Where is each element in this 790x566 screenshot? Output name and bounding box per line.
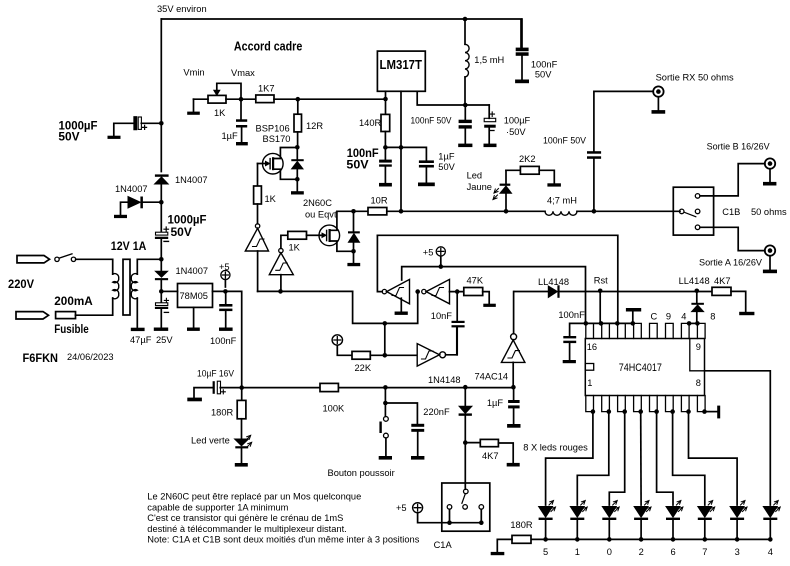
capacitor 220nF <box>385 403 424 456</box>
pins 4017 top <box>586 323 705 338</box>
label 100nF 50V top right <box>531 59 558 79</box>
node +5 rail <box>439 264 444 269</box>
label 100nF <box>210 336 237 346</box>
node pin14 <box>615 321 620 326</box>
capacitor 1000uF 50V input <box>114 117 162 136</box>
svg-text:1µF: 1µF <box>438 151 455 161</box>
transformer core <box>123 259 130 315</box>
wire clock down <box>599 291 601 324</box>
led verte <box>235 435 252 463</box>
node led jaune tap <box>504 209 509 214</box>
svg-text:Vmax: Vmax <box>231 68 255 78</box>
resistor 180R green led <box>237 388 246 439</box>
svg-text:8 X leds rouges: 8 X leds rouges <box>523 443 588 453</box>
diode 1N4007 lower <box>155 271 168 280</box>
svg-text:2N60C: 2N60C <box>303 198 332 208</box>
wire out q2 <box>640 412 642 505</box>
node oscillator out A <box>278 289 283 294</box>
label 74AC14 <box>475 372 509 382</box>
svg-text:1K: 1K <box>214 108 226 118</box>
node inductor bottom <box>463 103 468 108</box>
wire out q7 <box>673 412 705 505</box>
node pin2 cross <box>399 145 404 150</box>
wire switch to transformer <box>76 259 113 274</box>
ground for 4K7 reset <box>739 312 754 315</box>
node 4K7 junction <box>463 440 468 445</box>
label Vmin <box>183 68 204 78</box>
ground for 47K <box>483 304 496 307</box>
svg-text:C1A: C1A <box>434 540 453 550</box>
ground for 100uF <box>484 144 497 148</box>
svg-text:78M05: 78M05 <box>180 291 208 301</box>
transistor BSP106 <box>258 148 296 187</box>
inverter 2 osc <box>422 279 450 303</box>
node pin8 diode <box>695 321 700 326</box>
inverter 1 osc <box>382 279 409 311</box>
svg-text:50V: 50V <box>58 129 79 143</box>
capacitor 100nF 50V adj <box>379 160 392 183</box>
svg-text:LL4148: LL4148 <box>538 277 569 287</box>
label 4K7 reset <box>714 276 731 286</box>
led rouge 2 <box>634 501 651 540</box>
wire out q6 <box>657 412 673 505</box>
resistor 2K2 <box>506 166 554 183</box>
label 1000uF 50V filter <box>168 213 207 240</box>
svg-text:1K: 1K <box>265 194 277 204</box>
capacitor 100nF 50V out <box>459 105 472 144</box>
wire 1K7 to LM317 adj <box>274 98 386 100</box>
label 4,7 mH <box>547 195 577 205</box>
fuse 200mA <box>56 312 76 319</box>
svg-text:47µF: 47µF <box>130 335 152 345</box>
svg-text:Jaune: Jaune <box>467 182 492 192</box>
switch C1A <box>442 483 490 531</box>
wire pin7 pin8 bridge <box>689 322 697 324</box>
label 220nF <box>423 407 450 417</box>
supply +5 osc <box>436 247 445 267</box>
supply +5 22K <box>332 335 352 356</box>
ground for 1uF reset <box>507 424 520 428</box>
label F6FKN <box>23 351 59 365</box>
regulator 78M05 <box>178 284 213 308</box>
label Vmax <box>231 68 255 78</box>
label 2N60C ou Eqvt <box>303 198 337 220</box>
wire 78M05 output <box>213 291 242 387</box>
label 1,5 mH <box>474 55 504 65</box>
svg-text:Vmin: Vmin <box>183 68 204 78</box>
wire 1K to 2N60C gate <box>307 234 320 236</box>
svg-text:1: 1 <box>587 378 592 388</box>
svg-text:·50V: ·50V <box>506 127 526 137</box>
wire 2N60C source ground <box>353 251 355 263</box>
label 100K <box>323 403 346 413</box>
connector Sortie B <box>765 158 775 181</box>
ground for RX connector <box>652 110 666 114</box>
node 22K out <box>383 353 388 358</box>
node BSP106 drain <box>295 145 300 150</box>
wire inv2 to 47K <box>450 291 464 293</box>
resistor 47K <box>464 288 489 304</box>
wire out q0 <box>609 412 624 505</box>
svg-text:16: 16 <box>587 342 597 352</box>
label 140R <box>359 118 382 128</box>
ground for 2N60C <box>347 263 360 266</box>
svg-text:35V environ: 35V environ <box>157 4 207 14</box>
label +5 <box>219 262 230 272</box>
label 8 X leds rouges <box>523 443 588 453</box>
wire BSP106 source to ground <box>296 179 298 191</box>
led rouge 3 <box>730 501 747 540</box>
wire +5 rail osc <box>402 267 586 324</box>
svg-text:12V 1A: 12V 1A <box>111 239 147 253</box>
diode LL4148 clock <box>548 285 559 298</box>
ground for 220nF <box>411 456 424 460</box>
pins 4017 bottom <box>586 396 705 412</box>
node 22K junction on loop <box>383 321 388 326</box>
svg-text:24/06/2023: 24/06/2023 <box>67 352 114 362</box>
connector Sortie A <box>765 245 775 269</box>
capacitor 100nF 50V top right <box>516 19 529 80</box>
label BSP106 BS170 <box>256 124 291 145</box>
label LL4148 clock <box>538 277 569 287</box>
svg-text:5: 5 <box>543 547 548 557</box>
labels led numbers <box>543 547 773 557</box>
svg-text:50V: 50V <box>438 162 455 172</box>
wire vdd row <box>586 322 634 324</box>
diode 1N4007 horizontal <box>121 197 160 215</box>
svg-text:50V: 50V <box>171 225 192 239</box>
label 1uF reset <box>487 398 504 408</box>
capacitor 100uF 50V <box>484 105 496 144</box>
label 12R <box>306 121 323 131</box>
transformer primary coil <box>113 274 119 299</box>
node reset diode junction <box>695 289 700 294</box>
ground for 2K2 <box>547 183 561 186</box>
svg-text:10R: 10R <box>371 196 388 206</box>
svg-text:Fusible: Fusible <box>54 322 89 336</box>
diode flyback 2N60C <box>348 211 360 251</box>
switch secteur <box>55 254 76 262</box>
node 1N4148 top <box>463 385 468 390</box>
capacitor 1uF 50V out <box>419 160 434 182</box>
node transformer junction <box>159 257 164 262</box>
capacitor 100nF 4017 <box>563 323 586 360</box>
ground for horizontal diode <box>114 215 127 218</box>
svg-text:Led: Led <box>467 171 483 181</box>
inverter 3 74AC14 <box>417 327 457 366</box>
svg-text:+5: +5 <box>423 248 434 258</box>
diode 1N4007 top <box>155 174 169 184</box>
svg-text:100nF: 100nF <box>531 59 558 69</box>
nodes bottom pins <box>591 409 707 414</box>
node pin16 <box>584 321 589 326</box>
capacitor 1000uF 50V filter <box>155 227 169 241</box>
wire rc rail <box>242 387 514 389</box>
diode flyback BSP106 <box>291 147 303 179</box>
svg-text:1µF: 1µF <box>222 131 239 141</box>
label 1K7 <box>258 83 275 93</box>
label 1000uF 50V <box>58 118 97 143</box>
svg-text:22K: 22K <box>355 363 372 373</box>
node c1a left <box>447 520 452 525</box>
label 1N4148 <box>428 375 461 385</box>
svg-text:9: 9 <box>666 312 671 322</box>
svg-text:140R: 140R <box>359 118 382 128</box>
node 12R top <box>296 97 301 102</box>
led rouge 1 <box>570 501 587 540</box>
svg-text:1K7: 1K7 <box>258 83 275 93</box>
svg-text:25V: 25V <box>156 335 173 345</box>
svg-text:C: C <box>651 312 658 322</box>
label 200mA <box>54 294 93 308</box>
wire out q1 <box>577 412 609 505</box>
svg-text:1N4148: 1N4148 <box>428 375 461 385</box>
node diode junction <box>159 200 164 205</box>
inductor 4,7mH <box>545 211 577 215</box>
svg-text:1N4007: 1N4007 <box>115 184 148 194</box>
capacitor 100nF 50V rx <box>587 91 653 211</box>
ground for 10uF <box>187 398 202 402</box>
svg-text:220V: 220V <box>8 277 34 291</box>
label 1uF 50V <box>438 151 455 172</box>
wire lm317 mid row <box>385 147 426 160</box>
led jaune <box>493 170 512 211</box>
node inverter4 bottom <box>511 385 516 390</box>
resistor 1K7 <box>256 95 274 103</box>
svg-text:1K: 1K <box>289 243 301 253</box>
wire to C1A <box>464 443 466 490</box>
resistor 180R leds <box>497 535 531 552</box>
node clock junction <box>598 289 603 294</box>
svg-text:12R: 12R <box>306 121 323 131</box>
svg-text:LM317T: LM317T <box>380 57 423 72</box>
label 4K7 c1a <box>482 451 499 461</box>
label 10nF <box>431 311 453 321</box>
svg-text:Sortie A 16/26V: Sortie A 16/26V <box>699 258 763 268</box>
transistor 2N60C <box>319 211 354 251</box>
node 10R out <box>399 209 404 214</box>
resistor 1K gate 2N60C <box>288 231 307 239</box>
svg-text:100nF: 100nF <box>210 336 237 346</box>
svg-text:Led verte: Led verte <box>191 436 230 446</box>
svg-text:2: 2 <box>639 547 644 557</box>
svg-text:0: 0 <box>607 547 612 557</box>
capacitor 1uF vmax <box>236 102 247 143</box>
label notes <box>147 492 419 545</box>
pushbutton <box>379 417 388 457</box>
label Bouton poussoir <box>328 468 395 478</box>
label Led Jaune <box>467 171 492 193</box>
diode 1N4148 <box>459 387 472 442</box>
svg-text:10nF: 10nF <box>431 311 453 321</box>
resistor 4K7 c1a <box>465 439 513 463</box>
label Sortie B <box>707 142 771 152</box>
label C1A <box>434 540 453 550</box>
node BSP106 source <box>295 177 300 182</box>
resistor 12R <box>294 99 302 147</box>
node osc rc <box>239 385 244 390</box>
svg-text:100K: 100K <box>323 403 346 413</box>
resistor 140R <box>381 114 390 159</box>
ground for 78M05 <box>193 307 195 327</box>
node 35V label <box>157 4 207 14</box>
node button top <box>383 385 388 390</box>
label 10uF 16V <box>197 369 235 379</box>
wire secondary top <box>137 259 161 274</box>
label +5 osc <box>423 248 434 258</box>
ground pin8 gnd <box>705 411 718 413</box>
wire 35V top rail <box>161 19 521 47</box>
wire 12V rail <box>401 210 680 212</box>
svg-text:180R: 180R <box>211 408 234 418</box>
wire B out to 1K <box>281 235 288 248</box>
svg-text:+5: +5 <box>219 262 230 272</box>
node pin13 <box>631 321 636 326</box>
svg-text:capable de supporter 1A minimu: capable de supporter 1A minimum <box>147 502 288 512</box>
svg-text:74AC14: 74AC14 <box>475 372 509 382</box>
ground for 1uF vmax <box>236 142 248 145</box>
node LM317 adj <box>383 97 388 102</box>
ground for 100nF out <box>458 144 472 148</box>
plug 220V top <box>17 256 50 263</box>
svg-text:1µF: 1µF <box>487 398 504 408</box>
capacitor 10nF <box>452 292 465 355</box>
resistor 22K <box>352 351 417 359</box>
inverter B 74AC14 <box>269 248 293 291</box>
svg-text:100nF 50V: 100nF 50V <box>411 116 453 126</box>
ground for 180R leds <box>491 552 505 555</box>
svg-text:2K2: 2K2 <box>519 154 536 164</box>
node 47K input <box>455 289 460 294</box>
node 1000uF tap <box>159 121 164 126</box>
label 180R leds <box>510 520 533 530</box>
svg-text:Le 2N60C peut être replacé par: Le 2N60C peut être replacé par un Mos qu… <box>147 492 361 502</box>
resistor 1K gate BSP106 <box>254 186 262 204</box>
svg-text:4: 4 <box>768 547 773 557</box>
ground for 1uF out <box>418 183 435 187</box>
capacitor 10uF 16V <box>194 381 242 397</box>
wire 1K to inverter A <box>257 204 259 224</box>
wire out q4 <box>705 371 771 505</box>
label 220V <box>8 277 34 291</box>
svg-text:8: 8 <box>696 378 701 388</box>
inverter 4 74AC14 <box>501 292 525 388</box>
wire C1B to sortie B <box>700 164 765 196</box>
label 47K <box>467 275 484 285</box>
label LL4148 carry <box>679 276 710 286</box>
resistor 10R <box>354 208 402 215</box>
label Rst <box>594 276 608 286</box>
wire secondary bottom <box>136 298 138 328</box>
resistor 100K <box>320 383 338 391</box>
svg-text:7: 7 <box>702 547 707 557</box>
nodes led rail <box>543 537 772 542</box>
svg-text:50V: 50V <box>346 158 368 172</box>
label 1K gate 2N60C <box>289 243 301 253</box>
transformer secondary coil <box>131 274 137 299</box>
node sortie rx tap <box>592 209 597 214</box>
wire LM317 pin3 <box>417 91 489 105</box>
svg-text:74HC4017: 74HC4017 <box>619 362 662 374</box>
svg-text:3: 3 <box>735 547 740 557</box>
label +5 c1a <box>396 503 407 513</box>
ground for potentiometer <box>187 112 200 115</box>
wire out q5 <box>546 412 593 505</box>
label 12V 1A <box>111 239 147 253</box>
node +5 output <box>223 289 228 294</box>
svg-text:ou Eqvt: ou Eqvt <box>305 210 337 220</box>
ground for 100nF 4017 <box>563 360 576 363</box>
ground for button <box>379 456 392 460</box>
label Accord cadre <box>234 38 302 53</box>
svg-text:1N4007: 1N4007 <box>176 266 209 276</box>
wire inverter1 output up <box>377 235 382 291</box>
ground for sortie A <box>763 270 777 274</box>
svg-text:100µF: 100µF <box>504 115 531 125</box>
connector Sortie RX <box>653 86 663 110</box>
svg-text:destiné à télécommander le mul: destiné à télécommander le multiplexeur … <box>147 524 346 534</box>
svg-text:LL4148: LL4148 <box>679 276 710 286</box>
wire LL4148 row <box>514 291 712 293</box>
plug 220V bottom <box>16 312 49 319</box>
label 1N4007 top <box>175 175 208 185</box>
svg-text:100nF 50V: 100nF 50V <box>543 136 587 146</box>
label C 9 4 8 <box>651 312 716 322</box>
label 180R <box>211 408 234 418</box>
svg-text:1,5 mH: 1,5 mH <box>474 55 504 65</box>
svg-text:10µF 16V: 10µF 16V <box>197 369 235 379</box>
switch C1B <box>673 187 713 235</box>
ground for BSP106 <box>291 191 304 194</box>
capacitor 100nF 5V rail <box>219 294 232 328</box>
wire osc to Rst rail <box>377 235 617 323</box>
wire out q3 <box>689 412 738 505</box>
svg-text:BSP106: BSP106 <box>256 124 290 134</box>
label 10R <box>371 196 388 206</box>
label 100nF 50V rx <box>543 136 587 146</box>
wire 78M05 input <box>164 290 178 292</box>
svg-text:Accord cadre: Accord cadre <box>234 38 302 53</box>
label 22K <box>355 363 372 373</box>
svg-text:200mA: 200mA <box>54 294 93 308</box>
label C1B 50 ohms <box>722 207 787 217</box>
label 1K gate <box>265 194 277 204</box>
svg-text:Note: C1A et C1B sont deux moi: Note: C1A et C1B sont deux moitiés d'un … <box>147 535 419 545</box>
svg-text:4K7: 4K7 <box>482 451 499 461</box>
label Sortie RX 50 ohms <box>656 73 734 83</box>
wire pot to 1K7 <box>226 98 256 100</box>
svg-text:9: 9 <box>696 342 701 352</box>
node pin7 out <box>687 321 692 326</box>
label Fusible <box>54 322 89 336</box>
ic 74HC4017 <box>585 339 704 396</box>
svg-text:6: 6 <box>671 547 676 557</box>
diode LL4148 carry <box>691 291 704 323</box>
potentiometer 1K <box>194 83 242 111</box>
ground for 100nF top right <box>515 80 529 84</box>
svg-text:Bouton poussoir: Bouton poussoir <box>328 468 395 478</box>
ground for inverter1 <box>395 312 408 315</box>
resistor 4K7 reset <box>712 287 746 312</box>
svg-text:Sortie RX 50 ohms: Sortie RX 50 ohms <box>656 73 734 83</box>
wire A out to U-loop <box>258 290 353 292</box>
svg-text:4: 4 <box>681 312 686 322</box>
wire led cathode rail <box>531 538 770 540</box>
led rouge 5 <box>539 501 556 540</box>
label 1N4007 lower <box>176 266 209 276</box>
node 2N60C source <box>351 249 356 254</box>
led rouge 0 <box>602 501 619 540</box>
